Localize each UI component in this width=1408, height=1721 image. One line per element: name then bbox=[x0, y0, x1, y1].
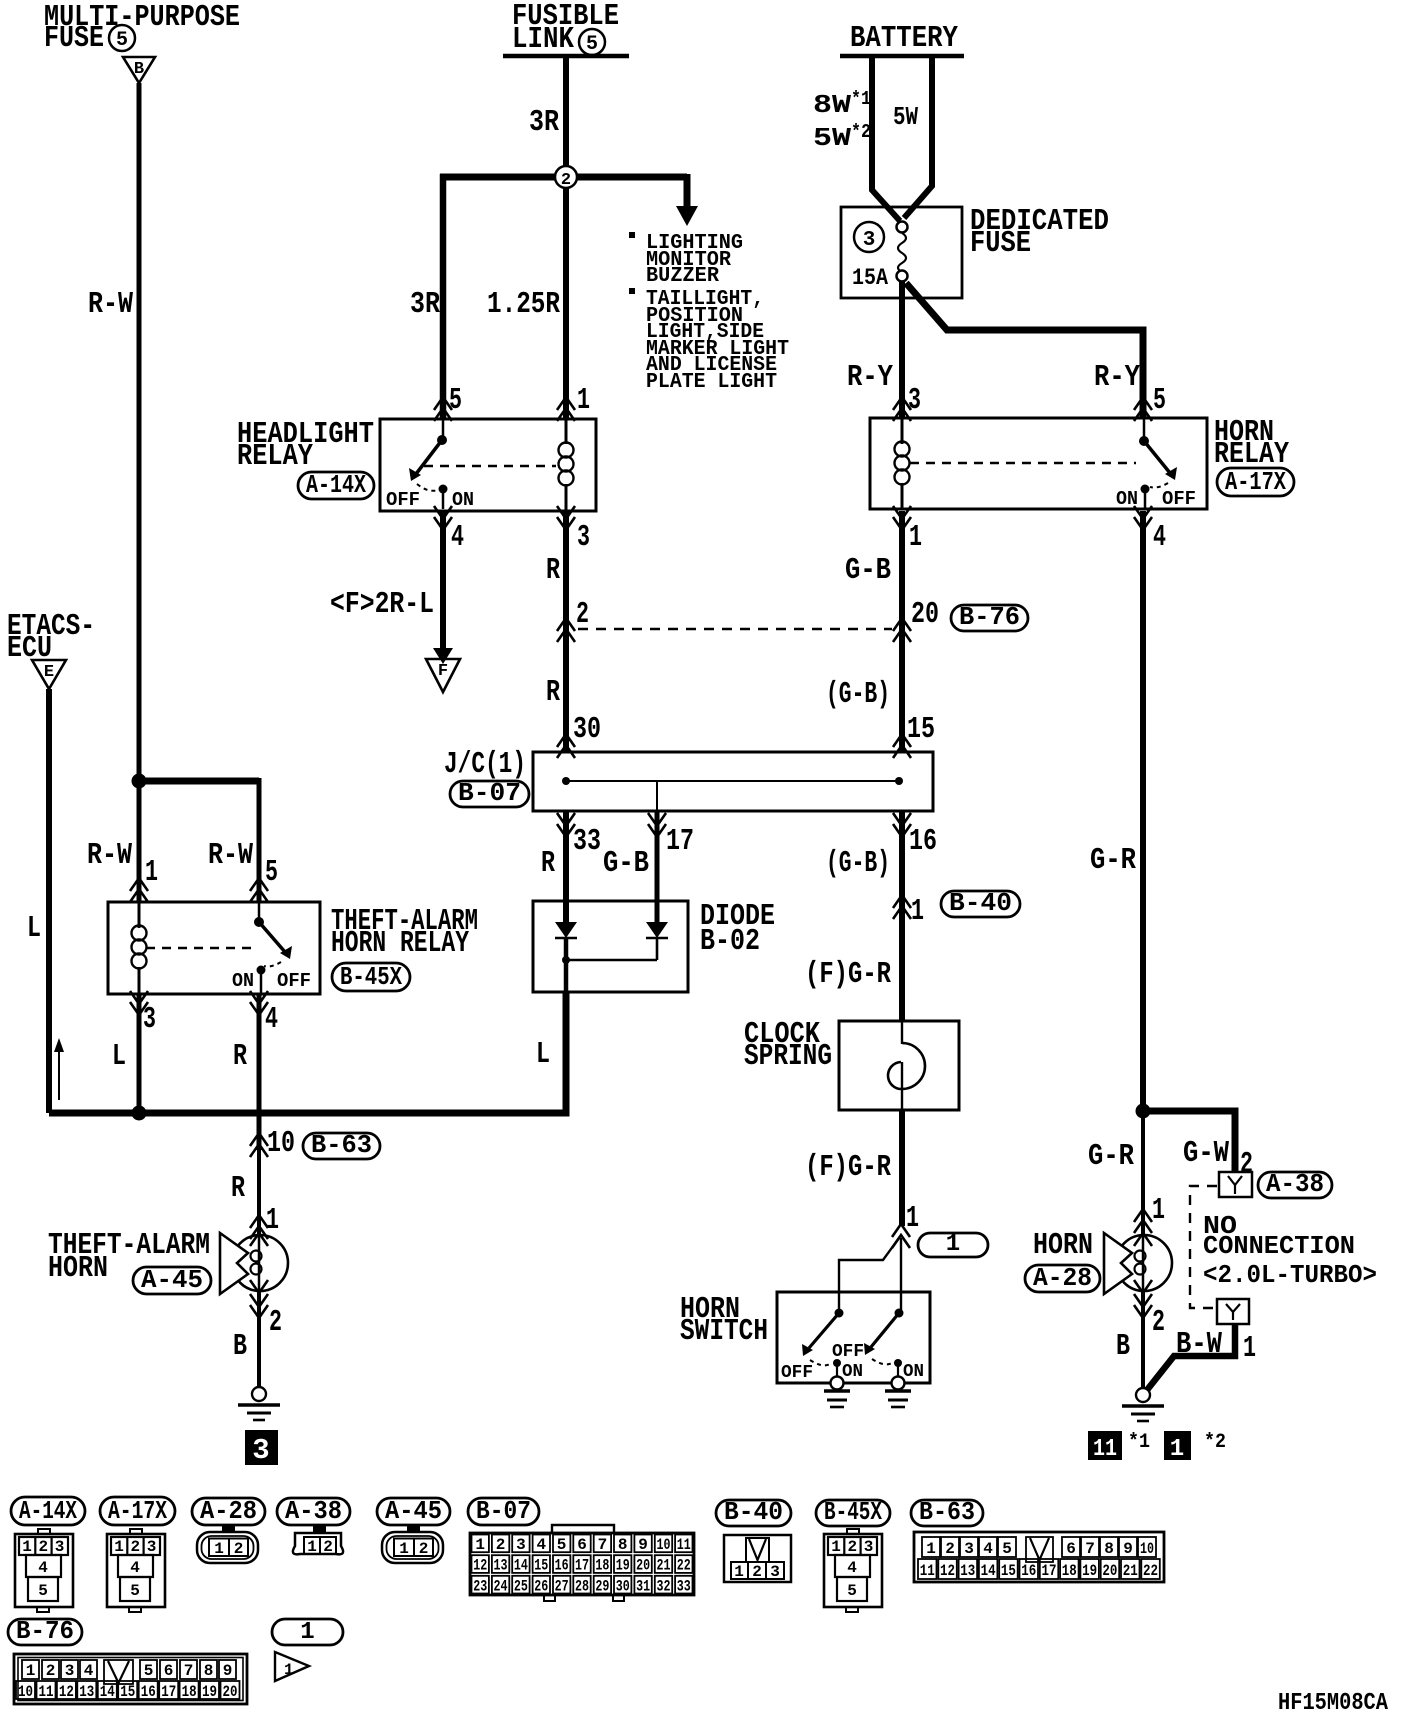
svg-text:A-38: A-38 bbox=[1266, 1169, 1324, 1199]
svg-text:PLATE LIGHT: PLATE LIGHT bbox=[646, 371, 777, 394]
svg-text:20: 20 bbox=[1102, 1562, 1117, 1580]
connector label A-14X (bottom) bbox=[11, 1496, 85, 1526]
svg-text:5: 5 bbox=[1153, 383, 1166, 418]
svg-text:2: 2 bbox=[323, 1538, 333, 1556]
horn relay switch bbox=[1139, 418, 1177, 509]
wire 3R from fusible link down bbox=[563, 56, 569, 418]
svg-text:7: 7 bbox=[1085, 1540, 1095, 1558]
wire G-B into diode bbox=[655, 811, 660, 922]
svg-text:25: 25 bbox=[514, 1577, 528, 1595]
svg-text:B-45X: B-45X bbox=[340, 962, 402, 992]
wire L from theft relay pin 3 bbox=[137, 994, 142, 1113]
svg-text:19: 19 bbox=[616, 1557, 630, 1575]
svg-text:22: 22 bbox=[677, 1557, 691, 1575]
svg-text:15: 15 bbox=[907, 712, 935, 747]
svg-text:A-28: A-28 bbox=[1033, 1263, 1092, 1293]
svg-text:5: 5 bbox=[38, 1582, 48, 1600]
terminal E triangle bbox=[32, 660, 66, 689]
svg-text:6: 6 bbox=[164, 1662, 174, 1680]
horn pin 2 exit chevrons bbox=[1134, 1294, 1152, 1318]
svg-text:2: 2 bbox=[1152, 1305, 1165, 1340]
svg-text:8: 8 bbox=[204, 1662, 214, 1680]
fuse element with terminals bbox=[897, 222, 908, 233]
wire R from theft relay pin 4 bbox=[257, 994, 262, 1150]
dashed no-connection wire bbox=[1190, 1186, 1217, 1308]
svg-text:29: 29 bbox=[595, 1577, 609, 1595]
clock spring spiral bbox=[888, 1021, 925, 1110]
horn A-28 symbol bbox=[1104, 1233, 1172, 1294]
svg-text:31: 31 bbox=[636, 1577, 650, 1595]
circled 5 (fusible link) bbox=[579, 29, 605, 55]
svg-text:<F>2R-L: <F>2R-L bbox=[330, 587, 434, 622]
connector label B-76 (bottom) bbox=[8, 1616, 82, 1646]
svg-text:*1: *1 bbox=[851, 88, 871, 110]
connector junction 2 chevrons (B-76 pin 2) bbox=[557, 618, 575, 642]
horn switch pin 1 chevrons bbox=[892, 1224, 910, 1248]
connector label B-40 (bottom) bbox=[716, 1497, 791, 1527]
svg-text:(F)G-R: (F)G-R bbox=[805, 1150, 891, 1185]
connector pinout B-76 bbox=[14, 1654, 247, 1704]
svg-text:B-02: B-02 bbox=[700, 924, 760, 959]
svg-text:8W: 8W bbox=[813, 90, 851, 120]
wire R from headlight relay pin 3 bbox=[563, 511, 569, 752]
svg-text:B-76: B-76 bbox=[16, 1616, 74, 1646]
pin 5 entry chevrons bbox=[250, 878, 268, 902]
wire G-B from J/C pin 16 bbox=[899, 811, 905, 1021]
svg-text:<2.0L-TURBO>: <2.0L-TURBO> bbox=[1203, 1260, 1377, 1290]
svg-text:8: 8 bbox=[1104, 1540, 1114, 1558]
theft horn pin 1 chevrons bbox=[250, 1215, 268, 1239]
connector label B-63 bbox=[303, 1130, 380, 1160]
svg-text:R: R bbox=[231, 1171, 245, 1206]
thick L bus wire bbox=[49, 992, 566, 1113]
signal direction arrow bbox=[58, 1050, 60, 1100]
svg-text:R: R bbox=[541, 846, 555, 881]
svg-text:1: 1 bbox=[300, 1619, 314, 1646]
svg-text:5: 5 bbox=[265, 855, 278, 890]
battery lead 8W bbox=[872, 56, 900, 221]
svg-text:16: 16 bbox=[141, 1683, 156, 1701]
svg-text:OFF: OFF bbox=[386, 489, 420, 511]
svg-text:27: 27 bbox=[555, 1577, 569, 1595]
svg-text:4: 4 bbox=[130, 1559, 140, 1577]
svg-text:(G-B): (G-B) bbox=[826, 677, 890, 712]
svg-text:1: 1 bbox=[911, 894, 924, 929]
svg-text:5: 5 bbox=[557, 1536, 567, 1554]
horn relay box A-17X bbox=[870, 418, 1207, 509]
svg-text:OFF: OFF bbox=[277, 970, 311, 992]
connector label A-28 (bottom) bbox=[192, 1496, 265, 1526]
svg-text:2: 2 bbox=[130, 1538, 140, 1556]
relay dashed actuator line bbox=[146, 947, 252, 949]
svg-text:A-17X: A-17X bbox=[1225, 467, 1286, 497]
connector pinout B-63 bbox=[914, 1532, 1164, 1582]
connector label B-07 bbox=[450, 778, 529, 808]
svg-text:32: 32 bbox=[657, 1577, 671, 1595]
connector junction 20 chevrons (B-76 pin 20) bbox=[893, 618, 911, 642]
svg-text:5: 5 bbox=[586, 33, 598, 56]
junction node R-W branch bbox=[132, 774, 147, 789]
svg-text:21: 21 bbox=[1123, 1562, 1138, 1580]
fusible link bus bar bbox=[503, 54, 629, 59]
svg-text:13: 13 bbox=[79, 1683, 94, 1701]
svg-text:B: B bbox=[1116, 1329, 1130, 1364]
svg-text:12: 12 bbox=[940, 1562, 955, 1580]
svg-text:15: 15 bbox=[1001, 1562, 1016, 1580]
svg-text:1: 1 bbox=[145, 855, 158, 890]
svg-text:10: 10 bbox=[657, 1536, 671, 1554]
connector Y (2.0L-Turbo horn) bbox=[1217, 1299, 1249, 1324]
connector pinout A-45 bbox=[382, 1526, 443, 1563]
svg-text:16: 16 bbox=[1021, 1562, 1036, 1580]
svg-text:*2: *2 bbox=[851, 121, 871, 143]
svg-text:2: 2 bbox=[234, 1540, 244, 1558]
svg-text:R-Y: R-Y bbox=[847, 360, 893, 395]
circled 3 (dedicated fuse number) bbox=[854, 222, 884, 252]
svg-text:OFF: OFF bbox=[832, 1342, 864, 1362]
svg-text:G-R: G-R bbox=[1090, 843, 1136, 878]
horn switch right contact bbox=[864, 1309, 904, 1379]
connector label B-45X (bottom) bbox=[816, 1497, 890, 1527]
svg-text:1: 1 bbox=[1170, 1436, 1184, 1463]
svg-text:20: 20 bbox=[223, 1683, 238, 1701]
ground tag 1 *2 bbox=[1164, 1431, 1191, 1460]
svg-text:5: 5 bbox=[130, 1582, 140, 1600]
connector label A-17X (bottom) bbox=[100, 1496, 175, 1526]
svg-text:13: 13 bbox=[960, 1562, 975, 1580]
wire R to theft-alarm horn bbox=[257, 1135, 261, 1236]
svg-text:16: 16 bbox=[909, 824, 937, 859]
svg-text:1: 1 bbox=[734, 1563, 744, 1581]
svg-text:B-40: B-40 bbox=[949, 888, 1012, 918]
dedicated fuse box bbox=[841, 207, 962, 298]
svg-text:LINK: LINK bbox=[512, 22, 574, 57]
svg-text:RELAY: RELAY bbox=[237, 439, 313, 474]
connector A-38 (no connection) bbox=[1219, 1172, 1252, 1197]
svg-text:17: 17 bbox=[1042, 1562, 1057, 1580]
svg-text:4: 4 bbox=[983, 1540, 993, 1558]
svg-text:B-40: B-40 bbox=[724, 1497, 783, 1527]
svg-text:1: 1 bbox=[266, 1203, 279, 1238]
svg-text:5: 5 bbox=[847, 1582, 857, 1600]
svg-text:2: 2 bbox=[419, 1540, 429, 1558]
relay dashed actuator line bbox=[424, 465, 556, 467]
connector B-40 chevrons bbox=[893, 895, 911, 919]
svg-text:OFF: OFF bbox=[781, 1363, 813, 1383]
theft relay coil bbox=[138, 902, 141, 928]
svg-text:3R: 3R bbox=[410, 287, 440, 322]
svg-text:F: F bbox=[438, 662, 448, 681]
pin 5 entry chevrons bbox=[1134, 397, 1152, 421]
pin 1 entry chevrons bbox=[557, 397, 575, 421]
svg-text:20: 20 bbox=[636, 1557, 650, 1575]
svg-text:J/C(1): J/C(1) bbox=[444, 747, 526, 782]
svg-text:22: 22 bbox=[1143, 1562, 1158, 1580]
svg-text:12: 12 bbox=[473, 1557, 487, 1575]
svg-text:2: 2 bbox=[269, 1305, 282, 1340]
J/C pin 30 entry chevrons bbox=[557, 734, 575, 758]
svg-text:3R: 3R bbox=[529, 105, 559, 140]
pin 5 entry chevrons bbox=[434, 397, 452, 421]
svg-text:3: 3 bbox=[516, 1536, 526, 1554]
svg-text:A-28: A-28 bbox=[200, 1496, 257, 1526]
svg-text:23: 23 bbox=[473, 1577, 487, 1595]
svg-text:1: 1 bbox=[26, 1662, 36, 1680]
svg-text:12: 12 bbox=[59, 1683, 74, 1701]
clock spring box bbox=[839, 1021, 959, 1110]
wire B-W bbox=[1147, 1324, 1235, 1390]
svg-text:8: 8 bbox=[618, 1536, 628, 1554]
horn switch left contact bbox=[802, 1309, 844, 1379]
svg-text:9: 9 bbox=[223, 1662, 233, 1680]
svg-text:B-45X: B-45X bbox=[824, 1497, 882, 1527]
svg-text:24: 24 bbox=[494, 1577, 508, 1595]
connector pinout A-14X bbox=[15, 1529, 73, 1612]
svg-text:(G-B): (G-B) bbox=[826, 846, 890, 881]
svg-text:2: 2 bbox=[847, 1538, 857, 1556]
horn relay coil bbox=[901, 418, 904, 444]
svg-text:1: 1 bbox=[909, 520, 922, 555]
svg-text:B-07: B-07 bbox=[476, 1496, 531, 1526]
svg-text:3: 3 bbox=[964, 1540, 974, 1558]
connector label B-63 (bottom) bbox=[911, 1497, 983, 1527]
svg-text:10: 10 bbox=[267, 1126, 295, 1161]
headlight relay switch bbox=[409, 419, 448, 509]
connector label A-38 bbox=[1258, 1169, 1332, 1199]
svg-text:5: 5 bbox=[1002, 1540, 1012, 1558]
svg-text:3: 3 bbox=[55, 1538, 65, 1556]
connector label A-17X bbox=[1217, 467, 1294, 497]
svg-text:4: 4 bbox=[84, 1662, 94, 1680]
svg-text:4: 4 bbox=[536, 1536, 546, 1554]
wire R-Y from fuse to horn relay pin 3 bbox=[899, 281, 905, 418]
svg-text:G-W: G-W bbox=[1183, 1136, 1229, 1171]
svg-text:1: 1 bbox=[214, 1540, 224, 1558]
svg-text:1: 1 bbox=[577, 383, 590, 418]
svg-text:4: 4 bbox=[38, 1559, 48, 1577]
svg-text:28: 28 bbox=[575, 1577, 589, 1595]
svg-text:G-B: G-B bbox=[603, 846, 649, 881]
svg-text:15: 15 bbox=[534, 1557, 548, 1575]
svg-text:A-45: A-45 bbox=[385, 1496, 442, 1526]
svg-text:B-07: B-07 bbox=[458, 778, 521, 808]
ground tag 3 bbox=[245, 1430, 278, 1465]
dashed link wire pin2 to pin20 bbox=[578, 628, 892, 630]
svg-text:2: 2 bbox=[496, 1536, 506, 1554]
svg-text:1: 1 bbox=[831, 1538, 841, 1556]
svg-text:1: 1 bbox=[1243, 1331, 1256, 1366]
theft relay switch bbox=[254, 902, 292, 994]
svg-text:HORN: HORN bbox=[1033, 1228, 1093, 1263]
svg-text:B-76: B-76 bbox=[959, 602, 1020, 632]
connector pinout A-17X bbox=[107, 1529, 165, 1612]
wire through horn bbox=[1141, 1111, 1145, 1236]
J/C pin 17 exit chevrons bbox=[648, 813, 666, 837]
svg-text:9: 9 bbox=[638, 1536, 648, 1554]
svg-text:14: 14 bbox=[514, 1557, 528, 1575]
svg-text:15A: 15A bbox=[852, 265, 888, 291]
svg-text:17: 17 bbox=[666, 824, 694, 859]
connector junction 10 chevrons (B-63 pin 10) bbox=[250, 1133, 268, 1157]
wire to horn switch contacts bbox=[839, 1238, 901, 1313]
svg-text:3: 3 bbox=[863, 229, 876, 252]
svg-text:7: 7 bbox=[184, 1662, 194, 1680]
svg-text:4: 4 bbox=[1153, 520, 1166, 555]
svg-text:4: 4 bbox=[265, 1002, 278, 1037]
svg-text:BUZZER: BUZZER bbox=[646, 265, 719, 288]
svg-text:2: 2 bbox=[576, 597, 589, 632]
svg-text:CONNECTION: CONNECTION bbox=[1203, 1231, 1355, 1261]
svg-text:21: 21 bbox=[657, 1557, 671, 1575]
svg-text:1: 1 bbox=[1152, 1193, 1165, 1228]
diode box B-02 bbox=[533, 901, 688, 992]
svg-text:B: B bbox=[134, 60, 144, 79]
svg-text:33: 33 bbox=[573, 824, 601, 859]
J/C pin 15 entry chevrons bbox=[893, 734, 911, 758]
pin 4 exit chevrons bbox=[1134, 506, 1152, 530]
pin 3 entry chevrons bbox=[893, 397, 911, 421]
svg-text:FUSE: FUSE bbox=[44, 21, 104, 56]
svg-text:HORN: HORN bbox=[48, 1251, 108, 1286]
wire below clock spring bbox=[899, 1110, 905, 1226]
theft horn pin 2 exit chevrons bbox=[250, 1294, 268, 1318]
svg-text:11: 11 bbox=[920, 1562, 935, 1580]
battery bus bar bbox=[840, 54, 964, 59]
svg-text:5W: 5W bbox=[813, 123, 851, 153]
svg-text:11: 11 bbox=[1093, 1436, 1117, 1463]
wire branch R-W to pin 5 bbox=[139, 778, 259, 785]
pin 3 exit chevrons bbox=[130, 991, 148, 1015]
svg-text:L: L bbox=[112, 1039, 126, 1074]
svg-text:2: 2 bbox=[752, 1563, 762, 1581]
svg-text:3: 3 bbox=[65, 1662, 75, 1680]
svg-text:30: 30 bbox=[616, 1577, 630, 1595]
svg-text:3: 3 bbox=[864, 1538, 874, 1556]
svg-text:19: 19 bbox=[202, 1683, 217, 1701]
svg-text:SPRING: SPRING bbox=[744, 1039, 832, 1074]
node 2 circle bbox=[555, 166, 577, 188]
diode output junction bbox=[562, 938, 657, 992]
svg-text:A-17X: A-17X bbox=[108, 1496, 167, 1526]
wire through theft horn bbox=[258, 1236, 261, 1290]
terminal B triangle bbox=[123, 57, 155, 83]
pin 1 entry chevrons bbox=[130, 878, 148, 902]
svg-text:18: 18 bbox=[182, 1683, 197, 1701]
svg-text:1: 1 bbox=[307, 1538, 317, 1556]
svg-text:A-14X: A-14X bbox=[19, 1496, 77, 1526]
svg-text:3: 3 bbox=[908, 383, 921, 418]
svg-text:R: R bbox=[546, 553, 560, 588]
svg-text:16: 16 bbox=[555, 1557, 569, 1575]
svg-text:5: 5 bbox=[449, 383, 462, 418]
headlight relay box A-14X bbox=[380, 419, 596, 511]
connector label B-45X bbox=[332, 962, 410, 992]
relay dashed actuator line bbox=[910, 462, 1136, 464]
svg-text:G-B: G-B bbox=[845, 553, 891, 588]
J/C internal bus bbox=[562, 777, 903, 811]
connector label A-14X bbox=[298, 470, 374, 500]
svg-text:11: 11 bbox=[677, 1536, 691, 1554]
svg-text:A-14X: A-14X bbox=[306, 470, 366, 500]
svg-text:1: 1 bbox=[114, 1538, 124, 1556]
ground (horn switch right) bbox=[885, 1377, 911, 1408]
svg-text:5W: 5W bbox=[893, 102, 918, 132]
terminal F triangle bbox=[426, 659, 460, 692]
wire R-W from fuse B down to theft-alarm horn relay pin 1 bbox=[137, 83, 142, 902]
connector pinout A-38 bbox=[293, 1526, 343, 1556]
svg-text:ON: ON bbox=[903, 1362, 924, 1382]
wire L from ETACS-ECU bbox=[46, 689, 52, 1113]
battery lead 5W bbox=[904, 56, 932, 218]
svg-text:33: 33 bbox=[677, 1577, 691, 1595]
arrow stub to lighting loads bbox=[684, 174, 691, 208]
svg-text:1: 1 bbox=[22, 1538, 32, 1556]
diode element left bbox=[555, 922, 577, 960]
connector pinout B-45X bbox=[824, 1529, 882, 1612]
svg-text:13: 13 bbox=[494, 1557, 508, 1575]
svg-text:1: 1 bbox=[946, 1231, 960, 1258]
svg-text:1: 1 bbox=[399, 1540, 409, 1558]
pin 1 exit chevrons bbox=[893, 506, 911, 530]
connector label B-07 (bottom) bbox=[468, 1496, 539, 1526]
svg-text:1: 1 bbox=[284, 1661, 294, 1679]
pin 4 exit chevrons bbox=[250, 991, 268, 1015]
svg-text:7: 7 bbox=[598, 1536, 608, 1554]
svg-text:26: 26 bbox=[534, 1577, 548, 1595]
svg-text:3: 3 bbox=[252, 1434, 269, 1467]
connector label B-76 bbox=[951, 602, 1028, 632]
svg-text:A-38: A-38 bbox=[285, 1496, 342, 1526]
svg-text:3: 3 bbox=[143, 1002, 156, 1037]
wire G-B from horn relay pin 1 bbox=[899, 511, 905, 752]
svg-text:R: R bbox=[546, 675, 560, 710]
svg-text:5: 5 bbox=[116, 29, 128, 52]
wire R into diode bbox=[563, 811, 569, 922]
junction node G-R / G-W bbox=[1136, 1104, 1151, 1119]
svg-text:B: B bbox=[233, 1329, 247, 1364]
connector pinout B-40 bbox=[724, 1535, 791, 1582]
svg-text:1: 1 bbox=[475, 1536, 485, 1554]
pin 3 exit chevrons bbox=[557, 506, 575, 530]
circled 5 (multi-purpose fuse) bbox=[109, 25, 135, 51]
wire 2R-L to front harness bbox=[440, 511, 446, 650]
svg-text:2: 2 bbox=[945, 1540, 955, 1558]
svg-text:1.25R: 1.25R bbox=[487, 287, 560, 322]
ground (horn switch left) bbox=[824, 1377, 850, 1408]
J/C pin 33 exit chevrons bbox=[557, 813, 575, 837]
svg-text:6: 6 bbox=[577, 1536, 587, 1554]
svg-text:*2: *2 bbox=[1204, 1431, 1226, 1454]
in-line connector symbol 1 bbox=[275, 1652, 309, 1681]
J/C pin 16 exit chevrons bbox=[893, 813, 911, 837]
svg-text:R: R bbox=[233, 1039, 247, 1074]
horn pin 1 chevrons bbox=[1134, 1209, 1152, 1233]
svg-text:15: 15 bbox=[120, 1683, 135, 1701]
svg-text:L: L bbox=[536, 1037, 550, 1072]
connector label A-45 bbox=[133, 1265, 211, 1295]
svg-text:FUSE: FUSE bbox=[970, 226, 1031, 261]
wire B to ground bbox=[257, 1290, 261, 1388]
svg-text:30: 30 bbox=[573, 712, 601, 747]
svg-text:B-W: B-W bbox=[1176, 1327, 1222, 1362]
svg-text:E: E bbox=[44, 663, 54, 682]
svg-text:OFF: OFF bbox=[1162, 488, 1196, 510]
svg-text:L: L bbox=[27, 911, 41, 946]
ground (horn) bbox=[1122, 1388, 1164, 1421]
svg-text:SWITCH: SWITCH bbox=[680, 1314, 768, 1349]
svg-text:6: 6 bbox=[1066, 1540, 1076, 1558]
wire G-R from horn relay pin 4 to horn bbox=[1140, 511, 1146, 1111]
